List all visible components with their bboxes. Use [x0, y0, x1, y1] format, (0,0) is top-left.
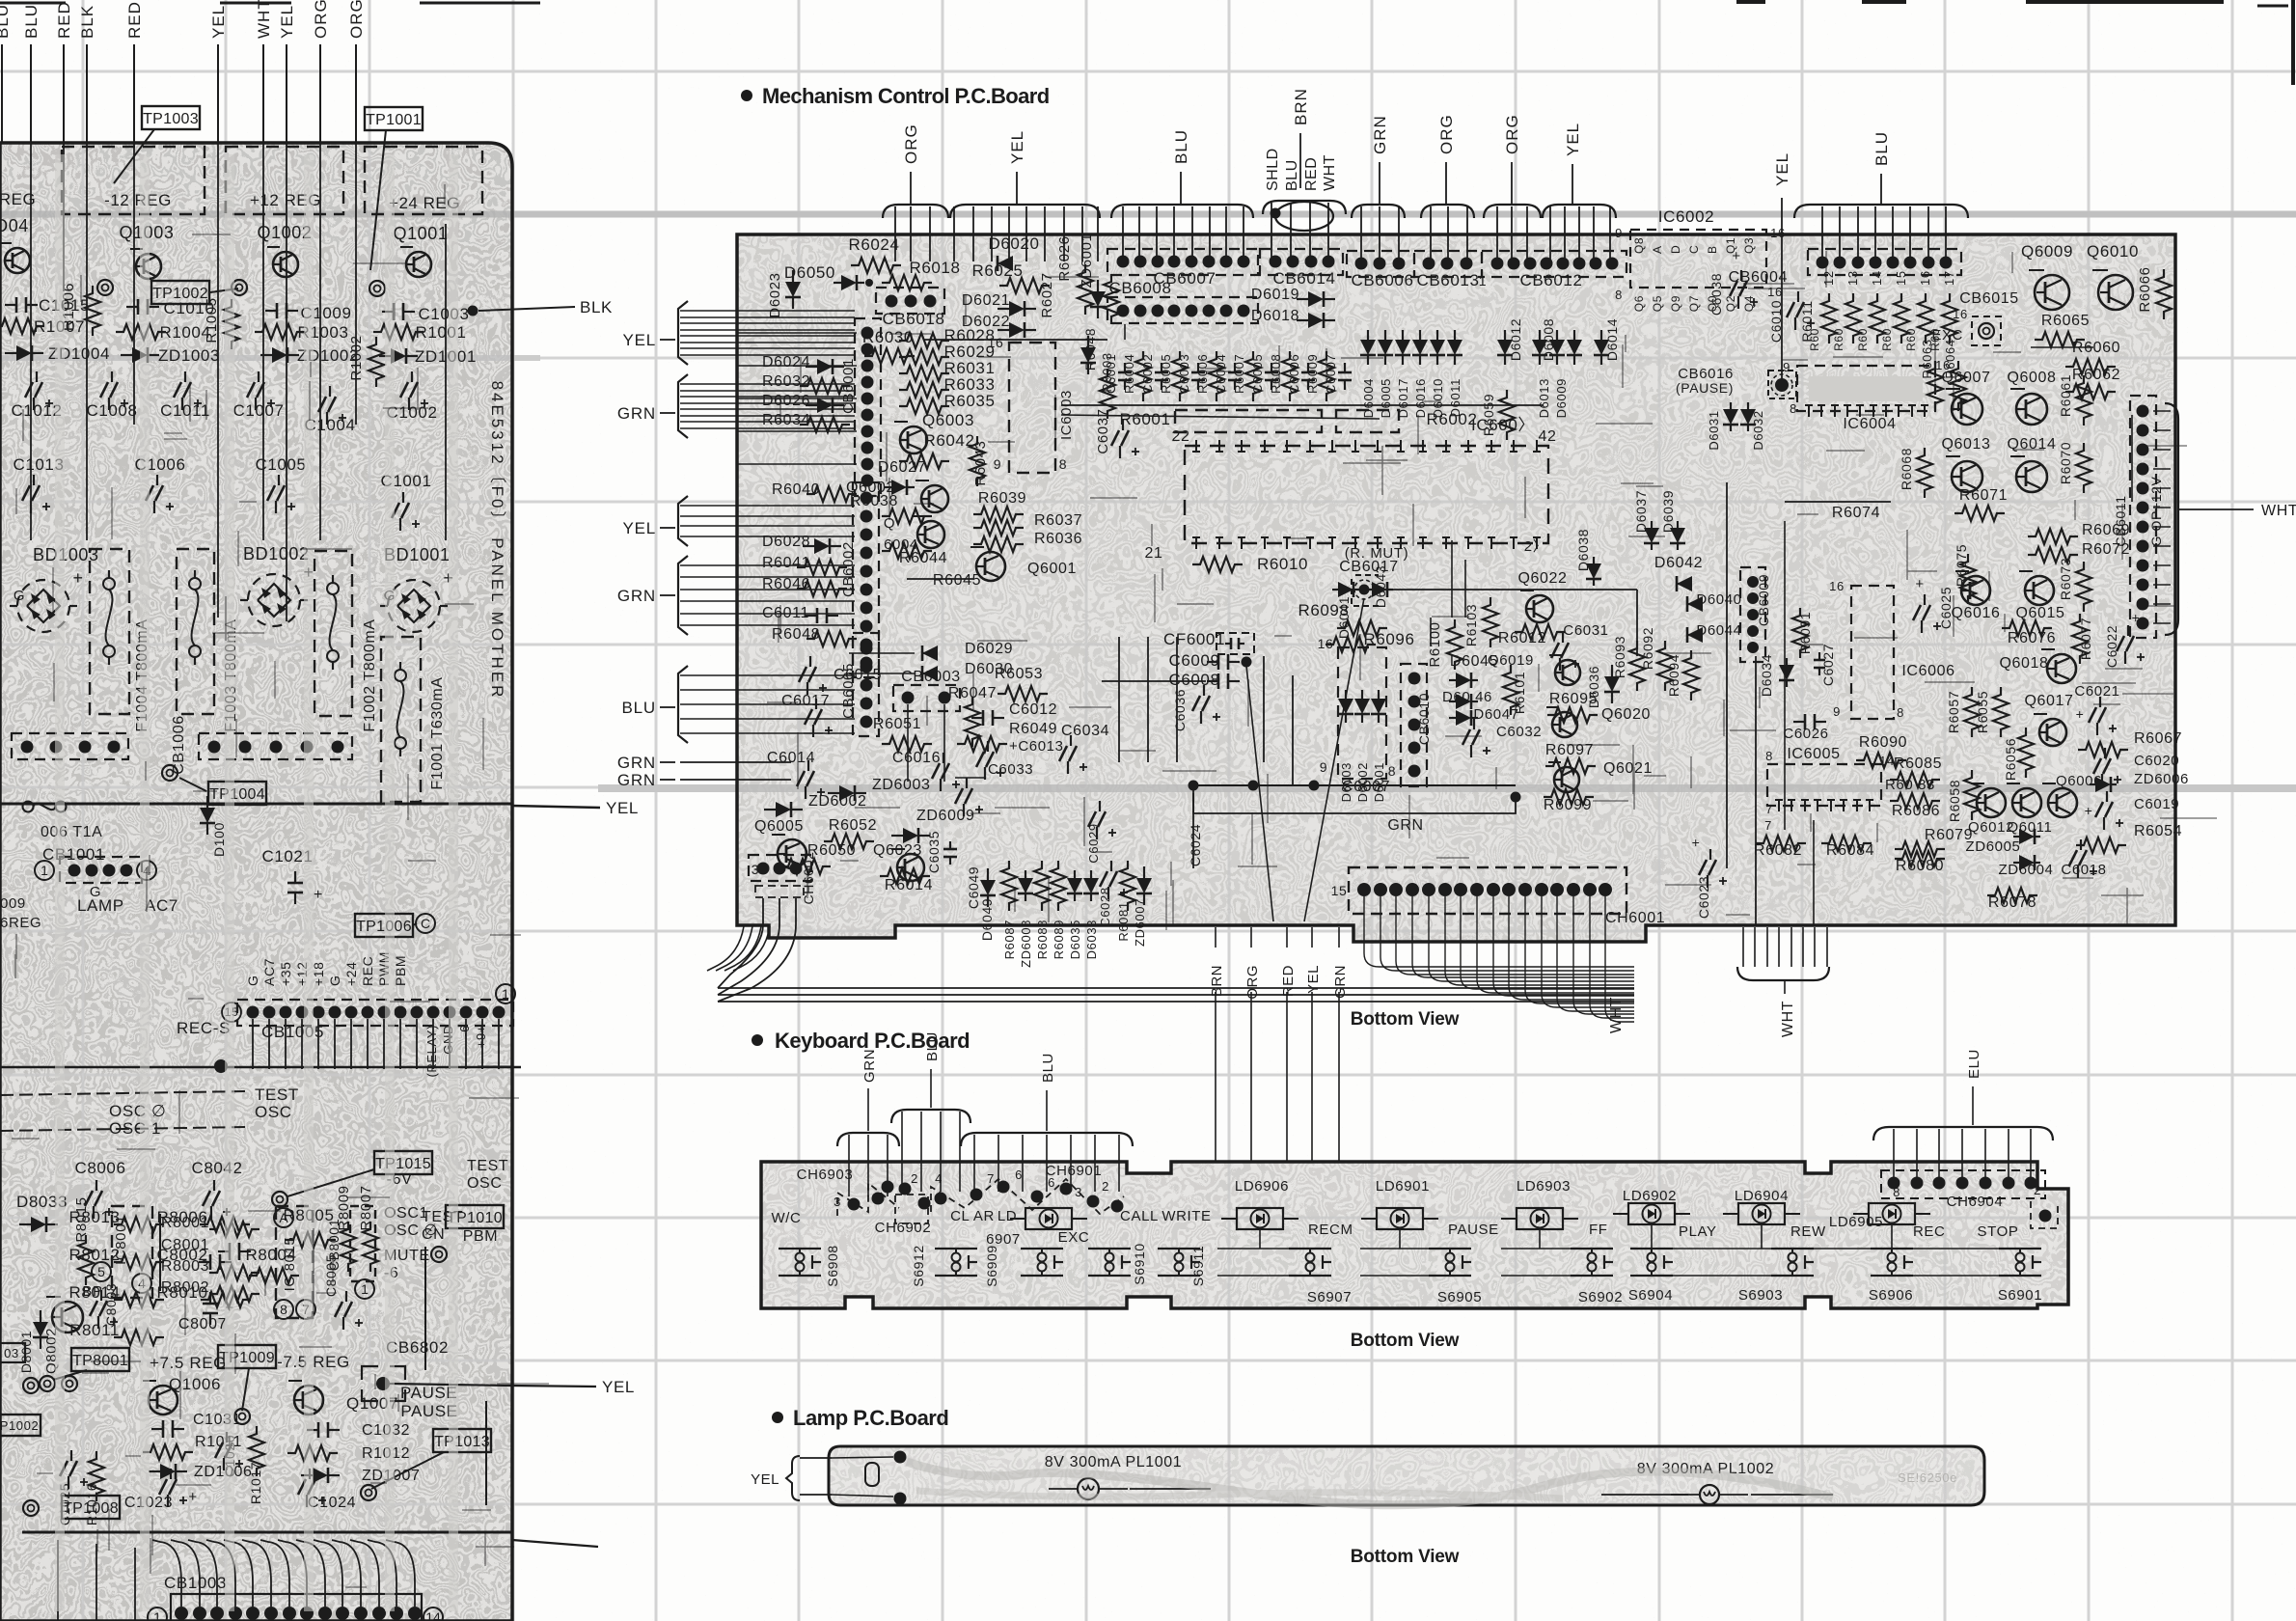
capacitor C6032: [1462, 719, 1542, 757]
svg-text:TP1015: TP1015: [375, 1156, 431, 1172]
transistor Q6023: [873, 842, 924, 881]
connector CH6901: [931, 1163, 1124, 1214]
svg-text:RED: RED: [55, 1, 73, 39]
svg-text:R6037: R6037: [1034, 512, 1082, 529]
label CALL: [1120, 1208, 1159, 1224]
svg-text:Q7: Q7: [1687, 295, 1701, 312]
resistor R6042: [899, 431, 975, 469]
svg-text:C1007: C1007: [232, 401, 284, 420]
zener ZD1002: [260, 346, 359, 365]
svg-text:R6074: R6074: [1832, 505, 1880, 521]
svg-text:B: B: [1706, 245, 1719, 254]
svg-text:IC 8015: IC 8015: [282, 1237, 298, 1292]
svg-text:TP1003: TP1003: [143, 111, 199, 127]
svg-text:16: 16: [1829, 579, 1845, 593]
resistor R8014: [68, 1283, 164, 1307]
transistor Q6009: [2021, 242, 2073, 310]
svg-text:C6023: C6023: [1696, 876, 1711, 919]
svg-text:+9+: +9+: [474, 1025, 488, 1048]
svg-text:R60: R60: [1832, 328, 1845, 351]
resistor R6068: [1899, 448, 1932, 498]
svg-text:Q6008: Q6008: [2007, 370, 2056, 386]
capacitor C1004: [304, 386, 355, 434]
label TEST CN: [422, 1209, 463, 1243]
svg-text:42: 42: [1539, 428, 1557, 445]
capacitor C8006: [74, 1159, 125, 1219]
IC6006: [1829, 579, 1954, 720]
svg-text:C: C: [421, 916, 430, 931]
capacitor C6023: [1692, 835, 1727, 919]
svg-text:BLU: BLU: [1284, 159, 1300, 191]
capacitor C6025: [1913, 576, 1954, 633]
svg-text:BLU: BLU: [1172, 129, 1190, 164]
svg-text:C1012: C1012: [11, 401, 62, 420]
svg-text:TEST: TEST: [467, 1158, 508, 1174]
capacitor C6013: [976, 738, 1064, 780]
svg-text:R6061: R6061: [2058, 374, 2073, 417]
svg-text:C8005: C8005: [323, 1254, 339, 1297]
diode D6028: [762, 534, 841, 554]
diode D6032: [1740, 402, 1765, 451]
transistor Q6004: [884, 515, 944, 553]
svg-text:7: 7: [987, 1171, 995, 1186]
resistor R6058: [1947, 770, 1980, 822]
svg-text:(PAUSE): (PAUSE): [1676, 380, 1734, 396]
svg-text:9: 9: [994, 456, 1001, 472]
capacitor C1010: [126, 299, 215, 317]
resistor R8002: [161, 1279, 260, 1302]
resistor R6082: [1754, 836, 1806, 859]
resistor R6041: [762, 555, 847, 575]
svg-text:ZD6005: ZD6005: [1966, 838, 2021, 855]
svg-text:Bottom View: Bottom View: [1351, 1009, 1460, 1030]
svg-text:D6023: D6023: [767, 272, 783, 317]
svg-text:YEL: YEL: [606, 799, 639, 817]
svg-text:R6088: R6088: [1035, 920, 1050, 959]
svg-text:D6021: D6021: [962, 292, 1010, 309]
pcb trace stripes: [60, 154, 453, 1611]
svg-text:Bottom View: Bottom View: [1351, 1547, 1460, 1567]
resistor R6012: [1498, 630, 1546, 646]
svg-text:R6059: R6059: [1481, 394, 1496, 436]
wires ORG3 (mech top): [1484, 114, 1541, 261]
bridge rectifier BD1001: [380, 568, 454, 632]
wires below CB1005: [253, 1019, 499, 1069]
svg-text:LD: LD: [998, 1208, 1017, 1224]
connector CB6012: [1479, 251, 1626, 289]
resistor R6052: [824, 817, 877, 849]
diode D6026: [762, 393, 844, 413]
left P.C.Board outline (PANEL MOTHER): [0, 143, 512, 1621]
resistor R1012: [287, 1445, 410, 1462]
resistor R6091: [1792, 608, 1813, 658]
svg-text:D6005: D6005: [1379, 378, 1393, 418]
svg-text:R6093: R6093: [1612, 636, 1627, 678]
svg-text:A: A: [279, 1210, 288, 1225]
resistor R1001: [373, 323, 467, 342]
svg-text:Q5: Q5: [1651, 295, 1664, 312]
resistor R6036: [973, 531, 1082, 552]
node BLK: [468, 298, 613, 316]
wires BLU (kbd 2): [961, 1053, 1133, 1192]
test point TP1013: [361, 1429, 491, 1500]
connector CB8001: [326, 1206, 375, 1281]
connector CB6005: [840, 633, 879, 736]
svg-text:REC-S: REC-S: [177, 1019, 231, 1037]
resistor R1002: [348, 335, 384, 387]
transistors Q6012 Q6011 Q6006: [1968, 773, 2102, 836]
svg-text:8: 8: [1765, 749, 1773, 763]
svg-text:BD1002: BD1002: [243, 544, 310, 563]
svg-text:ORG: ORG: [347, 0, 366, 39]
resistor R6049: [957, 721, 1057, 752]
resistor R8010: [156, 1283, 251, 1307]
resistor R6076: [2002, 620, 2056, 646]
resistor R6073: [2058, 558, 2091, 612]
svg-text:CL AR: CL AR: [950, 1208, 995, 1224]
labels 009 6REG: [0, 895, 41, 931]
capacitor C1021: [261, 847, 323, 904]
capacitor C6019: [2085, 791, 2180, 830]
connector CB6014: [1260, 249, 1343, 288]
resistor R6069: [2028, 522, 2130, 544]
svg-text:ORG: ORG: [312, 0, 330, 39]
svg-text:C1008: C1008: [86, 401, 137, 420]
svg-text:1: 1: [1479, 273, 1487, 288]
wires ORG (mech top): [883, 124, 948, 261]
svg-text:S6908: S6908: [825, 1245, 840, 1286]
svg-text:+7.5 REG: +7.5 REG: [150, 1354, 227, 1372]
capacitor C6020: [2093, 748, 2179, 786]
switch S6903: [1738, 1249, 1814, 1304]
resistor R8003: [161, 1258, 260, 1280]
label TEST OSC: [255, 1085, 299, 1121]
svg-text:STOP: STOP: [1978, 1223, 2019, 1240]
svg-text:9: 9: [1615, 226, 1623, 240]
svg-text:C8008: C8008: [103, 1283, 119, 1326]
svg-text:CN: CN: [422, 1226, 445, 1243]
wires GRN (mech top): [1352, 115, 1405, 261]
resistor R6096: [1326, 630, 1415, 652]
svg-text:(RELAY): (RELAY): [424, 1025, 439, 1078]
svg-text:C6028: C6028: [1098, 887, 1112, 926]
svg-text:R6024: R6024: [848, 235, 899, 254]
label OSC 1: [0, 1119, 246, 1138]
svg-text:14: 14: [1879, 754, 1895, 768]
svg-text:SE!6250e: SE!6250e: [1898, 1470, 1957, 1485]
svg-text:RECM: RECM: [1308, 1222, 1353, 1238]
wire stubs upper-left board: [31, 143, 446, 621]
svg-text:GRN: GRN: [617, 754, 656, 772]
resistor bank R60xx (12-17): [1767, 270, 1968, 351]
resistor R6011: [1799, 300, 1815, 342]
svg-text:AC7: AC7: [145, 896, 178, 915]
svg-text:RED: RED: [1303, 157, 1320, 191]
resistor R6037: [973, 512, 1082, 536]
transistor Q6003: [894, 411, 974, 453]
test point TP1002b: [0, 1378, 41, 1436]
capacitor C6038: [1708, 248, 1758, 316]
svg-text:R6092: R6092: [1640, 627, 1655, 670]
svg-text:R6052: R6052: [829, 817, 877, 834]
capacitor C1006: [134, 455, 185, 513]
resistor R6026: [1056, 235, 1093, 315]
LED LD6905: [1829, 1203, 1946, 1240]
svg-text:C6007: C6007: [1342, 779, 1390, 795]
resistor R6039: [973, 490, 1026, 522]
svg-text:TP1001: TP1001: [366, 112, 422, 128]
svg-text:Q3: Q3: [1742, 237, 1756, 254]
svg-text:Q9: Q9: [1669, 295, 1682, 312]
diode D6023: [767, 270, 801, 318]
svg-text:BLU: BLU: [0, 4, 12, 39]
svg-text:R6055: R6055: [1975, 691, 1990, 733]
svg-text:D6027: D6027: [878, 459, 926, 476]
svg-text:16: 16: [1318, 636, 1334, 651]
svg-text:R8003: R8003: [161, 1258, 209, 1275]
label 21b: [1524, 538, 1548, 555]
wires CH6001 bundle: [1364, 896, 1634, 1033]
resistor R8001 row: [161, 1215, 260, 1237]
svg-text:YEL: YEL: [1564, 123, 1582, 156]
wires into CB6001: [737, 333, 857, 464]
diode D6014: [1594, 318, 1620, 365]
svg-text:YEL: YEL: [1305, 965, 1322, 994]
svg-text:C6019: C6019: [2134, 796, 2179, 812]
svg-text:R6036: R6036: [1034, 531, 1082, 547]
hole (lamp board): [865, 1463, 879, 1486]
resistor R8005: [283, 1206, 336, 1248]
resistor R1003: [255, 323, 349, 342]
svg-text:BLK: BLK: [78, 5, 96, 39]
test point TP1010: [431, 1205, 504, 1262]
capacitor C6012: [971, 701, 1057, 726]
switch S6910: [1088, 1243, 1147, 1284]
svg-text:GRN: GRN: [617, 587, 656, 605]
svg-text:CH6902: CH6902: [875, 1220, 932, 1236]
switch S6911: [1158, 1246, 1206, 1286]
wires WHT bundle right-down: [1737, 927, 1829, 1037]
svg-text:S6910: S6910: [1132, 1243, 1147, 1284]
connector row right of CB1006: [199, 733, 352, 759]
label OSC 0: [0, 1091, 246, 1120]
capacitor C6015: [799, 656, 882, 695]
wire stubs bottom left: [58, 1540, 135, 1621]
wire YEL (top-left): [209, 5, 228, 143]
label PAUSE: [400, 1384, 457, 1402]
svg-text:YEL: YEL: [209, 5, 228, 39]
svg-text:006 T1A: 006 T1A: [41, 824, 102, 840]
capacitor C6008: [1102, 671, 1240, 689]
svg-text:1: 1: [502, 986, 509, 1002]
lamp board traces: [907, 1462, 1833, 1505]
wire RED (top-left): [125, 1, 144, 143]
transistor Q6010: [2087, 242, 2139, 310]
resistor R8006: [156, 1208, 250, 1232]
connector CB6015: [1959, 290, 2018, 345]
capacitor C1012: [11, 371, 62, 420]
IC6003: [988, 335, 1075, 473]
lamp PL1002: [1601, 1461, 1833, 1504]
svg-text:LD6902: LD6902: [1623, 1188, 1677, 1204]
svg-text:OSC: OSC: [255, 1103, 292, 1121]
svg-text:13: 13: [1845, 270, 1860, 286]
diode D6050: [784, 263, 873, 290]
bus line bottom: [22, 1532, 598, 1547]
switch S6907: [1289, 1249, 1352, 1305]
zener ZD6006: [2090, 771, 2189, 792]
resistor R6083: [1885, 777, 1940, 809]
wire bus y833 to YEL: [0, 799, 639, 817]
connector CB6010: [1401, 664, 1432, 786]
IC6005: [1765, 746, 1895, 816]
resistor R6081: [1116, 861, 1135, 942]
svg-text:CH6904: CH6904: [1947, 1194, 2004, 1210]
test point TP1004: [162, 765, 266, 805]
transistor Q1004 (partial): [0, 216, 30, 273]
svg-text:5: 5: [97, 1264, 105, 1279]
svg-text:D6024: D6024: [762, 354, 810, 371]
svg-text:Q6011: Q6011: [2008, 819, 2053, 836]
svg-text:R6041: R6041: [762, 555, 810, 571]
connector CH6001: [1331, 867, 1666, 926]
transistor Q8002: [43, 1297, 83, 1374]
label OSC1: [384, 1205, 428, 1222]
svg-text:8: 8: [1790, 401, 1797, 416]
svg-text:D6004: D6004: [1361, 378, 1376, 418]
page edge marks top-right: [1736, 0, 2293, 85]
transistor Q6018: [1999, 649, 2076, 683]
resistor R6010: [1192, 555, 1308, 573]
connector CB6011: [2113, 396, 2164, 638]
svg-text:C6011: C6011: [762, 605, 809, 621]
connector CB6016 (PAUSE): [1676, 366, 1796, 398]
svg-text:RED: RED: [125, 1, 144, 39]
diode D6019: [1251, 287, 1335, 307]
resistor R8004: [245, 1246, 299, 1283]
switch S6906: [1869, 1249, 1913, 1304]
resistor R6025: [971, 261, 1050, 293]
svg-text:R6067: R6067: [2134, 730, 2182, 747]
capacitor C1003: [382, 303, 470, 323]
capacitor C1031: [151, 1412, 241, 1438]
svg-text:+: +: [1915, 576, 1924, 592]
connector CB6004: [1729, 249, 1961, 286]
transistor Q6019: [1488, 652, 1580, 685]
svg-text:+: +: [2076, 706, 2085, 722]
svg-text:G: G: [245, 975, 260, 987]
svg-text:S6911: S6911: [1190, 1246, 1206, 1286]
fuse F1002 T800mA: [314, 551, 378, 732]
svg-text:D6043: D6043: [1373, 565, 1388, 608]
diode D6046: [1442, 689, 1492, 709]
wires GRN (mech left 1): [617, 374, 855, 438]
capacitor C1009: [265, 303, 352, 322]
resistor R6092: [1640, 627, 1673, 691]
svg-text:C1011: C1011: [160, 401, 210, 420]
capacitor C8008: [103, 1283, 119, 1326]
wire ORG (top-left): [347, 0, 366, 143]
svg-text:R6095: R6095: [1549, 691, 1598, 707]
svg-text:R6056: R6056: [2003, 738, 2018, 781]
wire ORG (below mech): [1244, 927, 1261, 1163]
wire GRN (below mech): [1332, 927, 1349, 1163]
connector CB6017 (R.MUT): [1339, 545, 1408, 606]
svg-text:8: 8: [1059, 456, 1067, 472]
svg-text:YEL: YEL: [622, 331, 656, 349]
svg-text:R6100: R6100: [1427, 621, 1443, 667]
circled 1: [355, 1279, 374, 1299]
heading: Keyboard P.C.Board: [752, 1029, 970, 1053]
wire stubs mid: [1119, 637, 1293, 786]
svg-text:Q6021: Q6021: [1603, 760, 1653, 777]
bridge rectifier BD1003: [10, 568, 84, 632]
resistor R6046: [762, 576, 847, 596]
svg-text:D6011: D6011: [1448, 378, 1462, 417]
resistor R6084: [1821, 836, 1874, 859]
wires YEL (mech left 1): [622, 301, 855, 365]
switch S6908: [779, 1245, 840, 1286]
resistor R6067: [2078, 730, 2182, 757]
svg-text:Q8: Q8: [1632, 237, 1646, 254]
svg-text:Q6003: Q6003: [922, 411, 974, 429]
label 7: [1764, 818, 1772, 833]
zener ZD1001: [379, 347, 477, 366]
capacitor C8007: [178, 1292, 234, 1333]
resistor R6062: [2065, 367, 2120, 399]
diode D6043: [1366, 565, 1393, 608]
resistor R6029: [899, 343, 996, 365]
switch S6909: [984, 1245, 1063, 1286]
label BP: [82, 1283, 118, 1329]
svg-text:C6018: C6018: [2061, 862, 2106, 878]
svg-text:D6020: D6020: [988, 234, 1039, 253]
svg-text:R6096: R6096: [1363, 630, 1414, 648]
IC6001 dashed outline: [1145, 428, 1557, 562]
label CLAR: [950, 1208, 995, 1224]
wire verticals right: [1727, 415, 2132, 926]
capacitor C6011: [762, 605, 838, 623]
resistor R6090: [1856, 734, 1907, 768]
svg-text:Q6009: Q6009: [2021, 242, 2073, 261]
svg-text:+: +: [314, 887, 323, 903]
capacitor C6034: [1059, 723, 1109, 774]
svg-text:C6033: C6033: [988, 761, 1033, 778]
svg-text:15: 15: [1331, 883, 1348, 898]
svg-text:D6019: D6019: [1251, 287, 1299, 303]
svg-text:R6054: R6054: [2134, 823, 2182, 839]
diode D6012: [1497, 318, 1523, 365]
svg-text:D6026: D6026: [762, 393, 810, 409]
resistor R6101: [1503, 665, 1527, 715]
svg-text:C6031: C6031: [1563, 622, 1608, 639]
svg-text:+: +: [2085, 803, 2093, 818]
svg-text:WHT: WHT: [2261, 503, 2296, 519]
wire PAUSE to YEL: [390, 1378, 635, 1396]
LED LD6902: [1613, 1188, 1717, 1240]
svg-text:OSC ∅: OSC ∅: [109, 1102, 166, 1120]
resistor R6055: [1975, 687, 2009, 737]
switch S6905: [1429, 1249, 1482, 1305]
switch S6902: [1571, 1249, 1623, 1305]
capacitor C6036: [1172, 685, 1220, 731]
diode cluster D6013/D6008/D6009: [1532, 318, 1582, 418]
wires BLU (mech left): [622, 666, 855, 743]
svg-text:D6050: D6050: [784, 263, 835, 282]
resistor R1005: [204, 297, 239, 349]
svg-text:CB1005: CB1005: [261, 1023, 324, 1041]
label +7.5 REG: [150, 1354, 227, 1372]
